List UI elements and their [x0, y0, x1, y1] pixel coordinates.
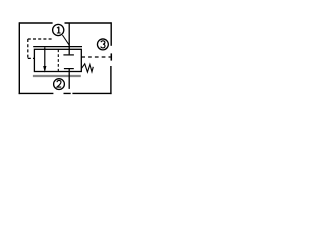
manifold boundary right edge lower: [110, 66, 112, 94]
digit 1: [57, 27, 61, 33]
port label circle 1: [53, 24, 64, 35]
flow arrow shaft: [44, 47, 46, 67]
pilot line end bar: [110, 53, 112, 60]
port label circle 2: [54, 79, 65, 90]
manifold boundary top edge: [19, 22, 111, 24]
manifold boundary right edge upper: [110, 22, 112, 46]
leader line from label 1: [62, 35, 69, 45]
blocked port cap bottom (closed position): [64, 68, 74, 70]
spring: [82, 64, 94, 72]
manifold boundary bottom edge: [19, 92, 112, 94]
port 2 stem through body bottom: [68, 69, 70, 89]
pilot line to port 3 (dashed): [81, 56, 110, 58]
port 1 line: [68, 23, 70, 54]
port 2 rail below valve body: [33, 75, 81, 77]
cartridge envelope top edge (dashed): [28, 38, 53, 40]
transitory position divider (dashed): [57, 49, 59, 71]
node halo for port 1 label: [51, 23, 65, 37]
port 1 rail above valve body: [33, 46, 82, 48]
blocked port cap top (closed position): [63, 54, 74, 56]
valve body box: [34, 49, 81, 71]
digit 2: [57, 80, 61, 87]
cartridge envelope bottom stub (dashed): [28, 57, 35, 59]
flow arrow head: [43, 66, 46, 73]
port label circle 3: [97, 39, 108, 50]
cartridge envelope left edge (dashed): [27, 39, 29, 58]
manifold boundary left edge: [18, 22, 20, 94]
digit 3: [101, 41, 105, 48]
